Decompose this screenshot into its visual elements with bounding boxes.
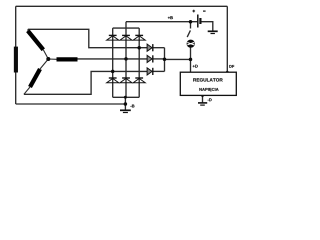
junction dot lamp branch / +D corner xyxy=(189,58,193,62)
wire rectifier top rail xyxy=(113,27,140,29)
stator coil A xyxy=(28,31,44,50)
battery xyxy=(198,15,201,28)
junction dot bottom rail / stem xyxy=(124,96,127,99)
wire bottom horizontal to ground node xyxy=(16,103,126,105)
wire trio lead 2 xyxy=(153,58,165,60)
ground battery xyxy=(208,31,218,33)
wire battery to ground corner xyxy=(201,22,213,31)
wire rectifier column 3 xyxy=(138,28,140,97)
wire +B stub xyxy=(125,22,127,28)
wire phase A from stator to rectifier xyxy=(28,29,147,47)
diode D2 top (column 2) xyxy=(120,35,132,40)
wire phase C xyxy=(24,71,147,94)
wire DF drop to regulator xyxy=(226,6,228,72)
label DF xyxy=(229,65,234,68)
ground -B under rectifier xyxy=(120,110,131,112)
regulator box xyxy=(180,72,236,95)
wire lamp branch stub xyxy=(190,22,192,29)
stator coil C xyxy=(30,69,40,87)
switch lever xyxy=(187,30,190,37)
junction dot phase C / column 1 xyxy=(111,70,115,74)
stator neutral leads xyxy=(24,29,57,94)
diode D3 top (column 3) xyxy=(133,35,145,40)
wire trio output vertical xyxy=(164,48,166,72)
wire rectifier column 1 xyxy=(112,28,114,97)
wire trio lead 1 xyxy=(153,47,165,49)
label +B xyxy=(168,16,173,19)
label -D xyxy=(208,98,212,101)
diode D4 bottom (column 1) xyxy=(107,78,119,83)
junction dot trio output / +D xyxy=(163,58,167,62)
diode trio DT3 xyxy=(147,68,153,75)
junction dot DF wire at box xyxy=(226,71,229,74)
label REGULATOR xyxy=(193,78,222,81)
junction dot -B node xyxy=(124,102,128,106)
junction dot +B / lamp branch xyxy=(189,20,193,24)
wire lamp to +D node xyxy=(190,48,192,73)
diode D1 top (column 1) xyxy=(107,35,119,40)
wire top horizontal (DF loop) xyxy=(16,5,228,7)
stator coil B xyxy=(57,57,78,61)
label +D xyxy=(193,65,198,68)
wire +D horizontal from diode trio xyxy=(165,58,191,60)
battery plus sign xyxy=(192,10,195,13)
diode trio DT2 xyxy=(147,55,153,62)
lamp (charge indicator) xyxy=(187,40,195,48)
wire trio lead 3 xyxy=(153,70,165,72)
junction dot -D stem at box xyxy=(201,94,204,97)
label -B xyxy=(130,105,134,108)
wire phase B xyxy=(78,58,148,60)
wire rectifier bottom rail xyxy=(113,96,140,98)
junction dot phase B / column 2 xyxy=(124,57,128,61)
diode D5 bottom (column 2) xyxy=(120,78,132,83)
wire rectifier column 2 xyxy=(125,28,127,97)
node neutral xyxy=(46,57,50,61)
diode D6 bottom (column 3) xyxy=(133,78,145,83)
wire stem from column 2 to -B ground xyxy=(124,97,126,109)
wire +B horizontal to battery xyxy=(126,21,197,23)
ground -D under regulator xyxy=(198,103,207,105)
battery minus sign xyxy=(203,10,206,12)
wire left vertical (field circuit) xyxy=(15,6,17,104)
field winding (rotor) xyxy=(14,47,18,73)
wire -D stem xyxy=(202,95,204,102)
diode trio DT1 xyxy=(147,44,153,51)
label NAPIECIA xyxy=(199,88,218,92)
junction dot phase A / column 3 xyxy=(137,46,141,50)
